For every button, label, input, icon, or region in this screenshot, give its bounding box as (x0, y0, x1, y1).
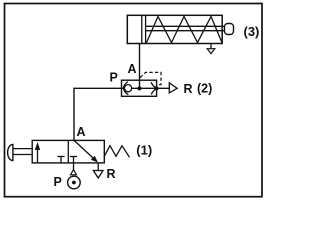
cylinder C3 piston (141, 15, 143, 43)
valve V1 right box blocked port T (73, 157, 75, 163)
svg-text:R: R (184, 82, 193, 96)
valve U2 dashed pilot box (140, 72, 161, 84)
svg-text:A: A (128, 62, 137, 76)
svg-text:R: R (107, 167, 116, 181)
svg-text:(1): (1) (136, 142, 152, 157)
cylinder C3 vent line (210, 44, 212, 49)
cylinder C3 vent triangle (207, 49, 215, 54)
valve U2 exhaust triangle R (169, 83, 177, 93)
valve U2 right seat arcs (151, 82, 156, 88)
valve U2 body (122, 80, 157, 96)
valve U2 ball (125, 85, 132, 92)
cylinder C3 rod end knob (225, 24, 234, 35)
svg-text:(3): (3) (244, 24, 260, 39)
pressure source dot (72, 181, 76, 185)
valve V1 body (32, 140, 104, 163)
valve V1 supply line P (73, 163, 75, 170)
valve U2 left seat arc (123, 82, 128, 95)
valve U2 junction node (138, 86, 142, 90)
wire A from valve 2 up to cylinder 3 (139, 44, 141, 89)
valve V1 exhaust line R (97, 163, 99, 171)
valve V1 return spring (104, 146, 129, 158)
valve V1 push button actuator (8, 144, 13, 160)
wire A from valve 1 up and right to valve 2 P, and on through valve 2 to R (74, 88, 169, 140)
valve V1 supply arrow triangle (71, 170, 77, 175)
svg-text:A: A (77, 125, 86, 139)
valve V1 exhaust triangle R (93, 171, 103, 179)
valve V1 left box blocked port T (60, 157, 62, 163)
cylinder C3 body (127, 15, 222, 43)
svg-text:P: P (110, 71, 118, 85)
pressure source circle (68, 176, 81, 189)
valve V1 right box diagonal arrow A to R (74, 140, 94, 158)
svg-text:(2): (2) (197, 82, 212, 96)
cylinder C3 return spring (147, 17, 223, 43)
valve U2 right edge node (155, 86, 159, 90)
valve V1 divider (67, 140, 69, 163)
frame border (5, 4, 263, 197)
valve V1 left box flow arrow (up) (37, 147, 39, 163)
svg-text:P: P (54, 175, 62, 189)
cylinder C3 piston rod (146, 25, 225, 27)
